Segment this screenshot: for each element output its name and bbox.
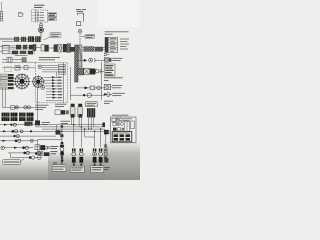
text above plug label — [53, 162, 57, 164]
spark plug tip bead — [61, 159, 64, 161]
sensor box 2 dark — [40, 145, 45, 150]
mark below inset — [104, 144, 106, 148]
text lines below table2 — [104, 78, 123, 81]
label box rear signal — [91, 166, 104, 173]
wire vertical left 2 — [4, 87, 6, 107]
dark box right bus end — [102, 123, 105, 127]
switch dot — [35, 152, 38, 155]
row E — [1, 146, 33, 149]
relay symbol K1 — [104, 84, 112, 89]
connector blocks bundle B — [16, 45, 21, 50]
connector marks above relay — [104, 53, 109, 55]
spark plug body — [60, 151, 64, 155]
bus line 4 — [0, 130, 105, 132]
wire from wheelB down — [37, 87, 39, 120]
bus line 2 — [35, 126, 105, 128]
label text turn switch — [76, 10, 86, 12]
connector bullets mid row — [15, 106, 18, 109]
coil bead pair 1 — [61, 125, 62, 127]
dashed frame — [35, 62, 67, 102]
cluster mid right — [78, 68, 105, 75]
label box UNIT — [48, 17, 57, 21]
scan shadow gradient bottom left — [0, 157, 48, 180]
row A fittings — [4, 123, 30, 126]
connector circle in frame — [38, 65, 41, 68]
wire bundle B — [2, 46, 35, 49]
wire rotor to bus — [40, 33, 42, 38]
fuse box trio — [55, 110, 69, 115]
relay cylinder 2 — [78, 104, 83, 127]
box small — [22, 58, 26, 62]
label box front signal — [70, 166, 84, 172]
row F — [8, 151, 43, 155]
wire across 2 — [2, 67, 35, 69]
spark plug ring — [60, 147, 64, 151]
dark box next — [35, 120, 40, 125]
relay box left — [0, 45, 9, 54]
connector pair 2 — [54, 45, 57, 52]
inset comp row — [113, 128, 117, 131]
pin table 1 — [105, 37, 118, 52]
connector block right B — [84, 47, 94, 52]
spark plug tick — [61, 162, 62, 164]
connector bullet pair — [39, 24, 43, 28]
lamp assembly 1 — [72, 148, 76, 165]
wire vertical right — [101, 62, 103, 100]
wire vertical in frame — [56, 72, 58, 77]
spark plug stem — [61, 156, 63, 159]
connector box mid row — [11, 106, 15, 110]
bus end box — [33, 44, 36, 50]
label text right small — [104, 167, 110, 169]
wire — [71, 47, 75, 49]
coil wire vertical — [61, 125, 63, 142]
connector bank row 1 — [2, 113, 10, 117]
row B fittings — [3, 130, 32, 133]
junction dots bus — [61, 124, 101, 132]
legend list right — [120, 39, 129, 49]
text relay right — [112, 58, 122, 60]
text diode row — [112, 93, 125, 95]
bus line 1 — [0, 124, 105, 126]
label box spark plug — [53, 165, 66, 172]
row D — [0, 139, 38, 142]
row C — [0, 135, 56, 138]
wire bundle A — [0, 38, 42, 41]
label column in frame — [59, 64, 66, 74]
row r3 arrow box circle — [76, 86, 105, 90]
switch box — [77, 22, 81, 26]
row r1 arrow circle — [78, 58, 105, 62]
inset sub box 2 — [116, 118, 118, 120]
wire across — [2, 61, 35, 63]
text beside switch — [50, 152, 57, 154]
small sensor circle — [41, 86, 45, 90]
spark plug cap — [61, 142, 64, 144]
label box california — [3, 159, 24, 165]
label box IGNITER — [48, 12, 57, 16]
inset wires vertical — [112, 121, 130, 131]
row r4 dot circle — [71, 93, 106, 97]
diode symbol row — [104, 93, 112, 97]
inset text — [123, 119, 132, 121]
text pair below — [104, 101, 113, 103]
wire — [61, 47, 63, 49]
sensor bullets — [45, 146, 48, 149]
switch box pair — [15, 66, 28, 70]
connector pair 1 — [41, 45, 45, 51]
wire L-shape — [78, 13, 84, 21]
label box regulator — [86, 102, 98, 107]
dark connector left of bus — [56, 130, 61, 134]
wires connector to inset — [109, 130, 111, 132]
sensor box 1 — [35, 145, 40, 150]
wire left edge — [1, 2, 3, 12]
wire bundle C — [9, 52, 35, 53]
inset left connector dark — [104, 130, 109, 134]
inset frame — [111, 117, 137, 143]
drop wires — [74, 125, 106, 147]
text next to dark box — [42, 122, 51, 124]
lamp assembly 4 — [99, 148, 103, 165]
wire horizontal mid — [2, 106, 35, 108]
scan shadow right lower — [103, 142, 140, 180]
inset sub boxes row2 — [113, 123, 116, 126]
text beside sensors — [50, 146, 58, 148]
bus line 3 — [42, 128, 105, 130]
relay cylinder 1 — [70, 104, 75, 125]
wire vertical down left — [37, 139, 39, 150]
inset dark table — [112, 132, 132, 142]
wire vertical right of frame — [63, 63, 65, 103]
wire stub left bus — [56, 125, 58, 131]
wire rows in frame top — [42, 66, 58, 72]
coil bead pair 2 — [60, 134, 61, 137]
note text block right — [105, 32, 129, 34]
text above relays — [55, 104, 67, 106]
text relay K1 — [112, 86, 122, 88]
igniter dashed box U1 — [35, 10, 47, 22]
connector blocks bundle A — [14, 37, 19, 42]
paper background — [0, 0, 140, 180]
stator lead row 4 — [0, 83, 7, 85]
main column bar 1 — [75, 45, 78, 82]
connector block left edge — [0, 12, 3, 22]
connector box 4way — [2, 57, 22, 62]
inset circle 2 — [121, 123, 124, 126]
wire dashed down — [79, 33, 81, 45]
text under bundle C — [15, 55, 28, 57]
main column bar 2 — [79, 45, 82, 67]
stator lead row 3 — [0, 80, 7, 82]
inset sub box 1 — [112, 118, 116, 122]
wire — [49, 47, 54, 49]
inset narrow box — [131, 121, 135, 129]
wire grey below inset — [106, 146, 108, 161]
switch box — [38, 152, 43, 156]
connector block right A — [70, 47, 77, 52]
spark plug upper bead — [60, 145, 64, 148]
lamp assembly 3 — [93, 148, 97, 165]
label igniter text — [34, 5, 45, 7]
wire bundle right — [78, 48, 105, 52]
connector block right C — [95, 47, 102, 51]
lamp assembly 5 — [104, 149, 107, 162]
switch dark block — [44, 152, 50, 156]
text above dashed frame — [39, 56, 60, 58]
label box to wire — [81, 34, 95, 38]
pin table 2 — [104, 64, 115, 76]
dark blob bottom — [105, 158, 109, 162]
pickup rotor small — [38, 27, 43, 32]
white top right corner — [97, 0, 140, 27]
igniter internal pins — [37, 12, 44, 21]
pin table small top — [31, 10, 36, 22]
lamp assembly 2 — [79, 148, 83, 165]
text below dashed frame left — [35, 105, 49, 109]
label box spark unit — [44, 33, 62, 40]
inset circle — [119, 118, 122, 121]
stator lead row 2 — [0, 77, 7, 79]
wire horizontal to coil — [38, 138, 62, 140]
wire vertical left of bars — [70, 67, 72, 100]
text ignition coil — [61, 121, 71, 123]
hook wire — [11, 153, 42, 160]
sensor arrow rows — [44, 76, 63, 100]
component small TL — [19, 12, 25, 16]
connector pair 3 — [63, 44, 67, 52]
inset title text — [112, 114, 129, 116]
stator lead row 1 — [0, 74, 7, 76]
connector bank row 2 — [2, 117, 10, 121]
scan shadow gradient bottom — [48, 150, 105, 180]
connector cluster extra — [24, 122, 32, 126]
alternator wheel A — [14, 73, 31, 90]
wire — [36, 47, 41, 49]
connector bullet — [78, 29, 82, 33]
connector blocks bundle C — [12, 51, 18, 55]
wire vertical left 1 — [1, 87, 3, 107]
pickup wheel B — [32, 75, 45, 88]
stator lead row 5 — [0, 87, 7, 89]
stator faint box top — [5, 67, 12, 72]
wire from igniter down — [40, 22, 42, 24]
regulator rectifier finned — [87, 108, 95, 129]
relay comp right — [104, 57, 111, 62]
